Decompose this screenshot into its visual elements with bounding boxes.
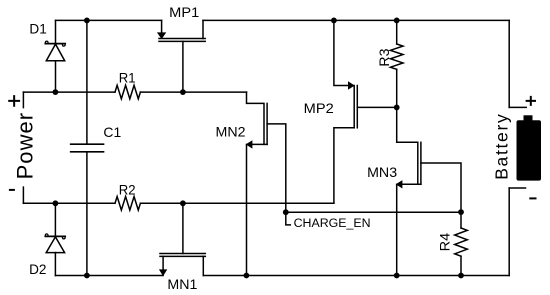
wire power plus (y=92) right bbox=[140, 91, 246, 93]
svg-text:C1: C1 bbox=[103, 124, 121, 140]
resistor R1 bbox=[115, 85, 140, 99]
svg-text:R2: R2 bbox=[119, 181, 136, 197]
wire power minus (y=203) left bbox=[23, 202, 115, 204]
node top rail / C1 bbox=[84, 18, 90, 24]
svg-text:R3: R3 bbox=[376, 48, 392, 66]
wire top rail left segment bbox=[56, 19, 162, 21]
port Power + terminal bar bbox=[22, 92, 24, 108]
node MN2 source / bottom rail bbox=[244, 273, 250, 279]
port Power - terminal bar bbox=[22, 187, 24, 203]
node C1 / bottom rail bbox=[84, 273, 90, 279]
Battery - sign bbox=[530, 197, 535, 199]
wire CHARGE_EN label flag bbox=[286, 212, 291, 225]
node D2 / power minus wire bbox=[53, 200, 59, 206]
transistor MN2 (NMOS) bbox=[247, 92, 286, 275]
resistor R2 bbox=[115, 197, 140, 211]
transistor MP1 (PMOS) bbox=[158, 20, 205, 92]
wire battery plus drop bbox=[508, 20, 510, 107]
battery symbol body bbox=[517, 120, 542, 180]
svg-text:D2: D2 bbox=[29, 261, 47, 277]
transistor MN1 (NMOS) bbox=[160, 203, 206, 275]
Power + sign bbox=[9, 96, 19, 106]
node MN2 drain / CHARGE_EN bbox=[283, 209, 289, 215]
svg-text:MP1: MP1 bbox=[169, 4, 199, 20]
wire bottom rail right segment bbox=[203, 275, 509, 277]
Power - sign bbox=[10, 189, 14, 191]
svg-text:R1: R1 bbox=[119, 69, 136, 85]
resistor R3 bbox=[390, 20, 403, 107]
transistor MP2 (PMOS) bbox=[334, 20, 397, 203]
svg-text:CHARGE_EN: CHARGE_EN bbox=[294, 218, 371, 230]
wire CHARGE_EN net bbox=[286, 211, 461, 213]
node top rail / MP2 source bbox=[331, 18, 337, 24]
node D1 / power plus wire bbox=[53, 89, 59, 95]
Battery + sign bbox=[527, 97, 535, 105]
node R3 / MP2 gate / MN3 gate bbox=[394, 105, 400, 111]
wire power plus (y=92) left bbox=[23, 91, 115, 93]
svg-text:Power: Power bbox=[12, 113, 37, 180]
svg-text:MN2: MN2 bbox=[216, 123, 246, 139]
svg-text:MP2: MP2 bbox=[304, 100, 334, 116]
resistor R4 bbox=[455, 212, 468, 275]
node MN3 drain / R4 / CHARGE_EN bbox=[458, 209, 464, 215]
wire top rail right segment bbox=[203, 19, 509, 21]
wire bottom rail left segment bbox=[55, 275, 163, 277]
svg-text:MN1: MN1 bbox=[167, 276, 197, 292]
port Battery - terminal bar bbox=[509, 187, 525, 189]
node MN3 source / bottom rail bbox=[394, 273, 400, 279]
diode D1 (zener) bbox=[45, 20, 65, 92]
wire battery minus rise bbox=[508, 188, 510, 276]
svg-text:Battery: Battery bbox=[491, 114, 511, 180]
svg-text:D1: D1 bbox=[29, 21, 47, 37]
diode D2 (zener) bbox=[45, 203, 65, 275]
battery symbol nub bbox=[524, 115, 533, 121]
node top rail / R3 bbox=[394, 18, 400, 24]
node MP1 gate / power plus wire bbox=[180, 89, 186, 95]
svg-text:MN3: MN3 bbox=[367, 164, 397, 180]
wire power minus (y=203) right bbox=[140, 202, 334, 204]
node MN1 gate / power minus wire bbox=[180, 200, 186, 206]
transistor MN3 (NMOS) bbox=[397, 107, 461, 275]
svg-text:R4: R4 bbox=[436, 233, 452, 252]
capacitor C1 bbox=[71, 20, 104, 275]
node R4 / bottom rail bbox=[458, 273, 464, 279]
port Battery + terminal bar bbox=[509, 106, 526, 108]
